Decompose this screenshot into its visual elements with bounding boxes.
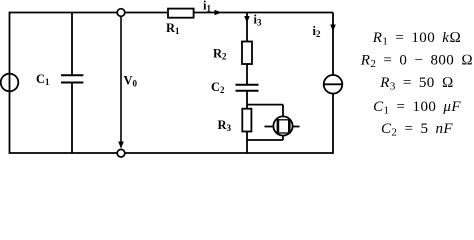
current source circle (right) <box>324 75 343 94</box>
capacitor C1 <box>61 13 83 154</box>
transducer element (crystal in can) <box>265 105 300 140</box>
value list <box>360 30 473 139</box>
wire middle branch (top) <box>246 13 248 42</box>
wire top <box>10 12 334 14</box>
voltage source circle (left) <box>1 74 19 92</box>
node bottom terminal (V0) <box>117 149 125 157</box>
wire parallel bottom <box>247 139 283 141</box>
node top terminal (V0) <box>117 9 125 17</box>
wire R2 to C2 <box>246 64 248 85</box>
svg-text:R2 = 0 − 800 Ω: R2 = 0 − 800 Ω <box>360 52 473 70</box>
wire C2 to junction <box>246 91 248 109</box>
V0 measurement arrow <box>118 17 124 149</box>
current arrow i1 <box>215 10 222 16</box>
wire right vertical <box>332 13 334 154</box>
resistor R2 <box>242 42 252 65</box>
wire parallel top <box>247 104 283 106</box>
capacitor C2 <box>236 85 259 91</box>
current arrow i2 <box>330 25 336 32</box>
wire R3 to bottom <box>246 132 248 154</box>
wire bottom <box>10 152 334 154</box>
resistor R3 <box>242 109 251 132</box>
wire left vertical <box>9 12 11 154</box>
current arrow i3 <box>244 16 250 23</box>
resistor R1 <box>168 9 194 18</box>
